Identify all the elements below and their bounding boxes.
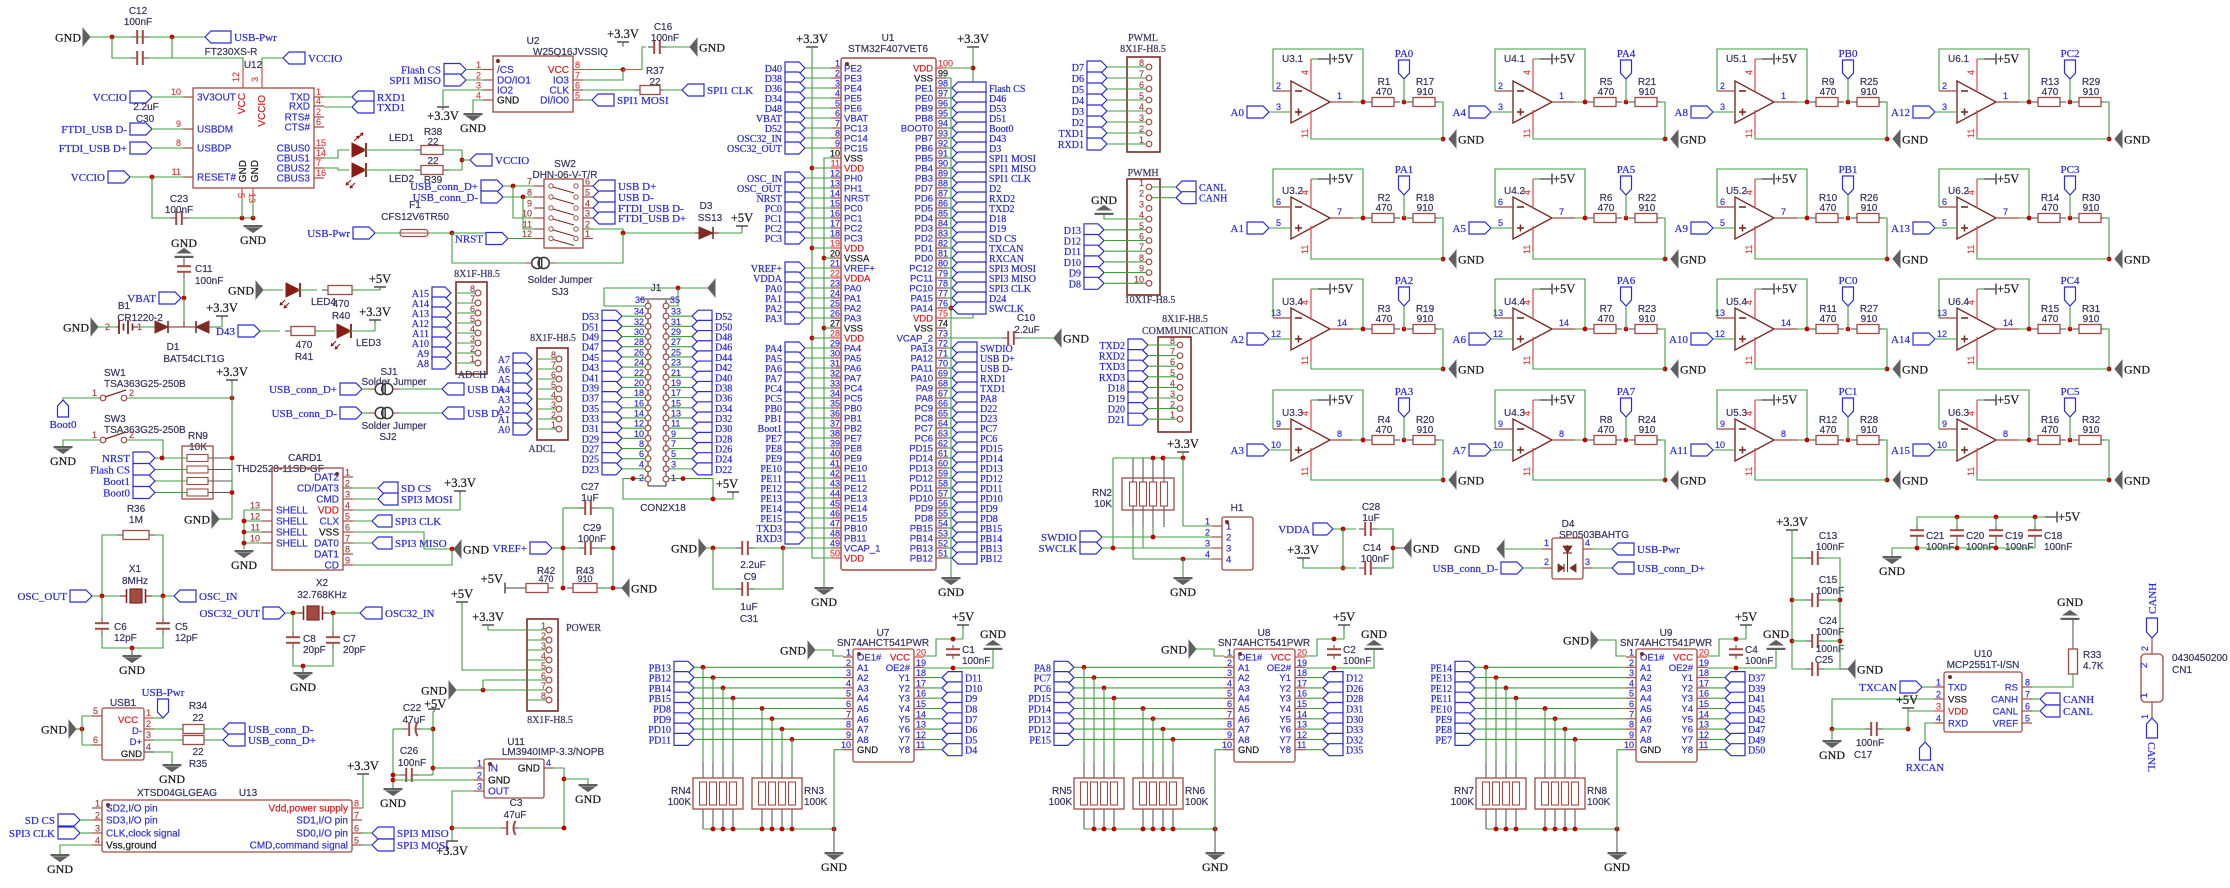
svg-text:3: 3	[551, 400, 556, 410]
label PB13	[952, 542, 977, 554]
svg-text:R33: R33	[2083, 650, 2102, 661]
svg-text:+3.3V: +3.3V	[436, 844, 468, 858]
svg-text:CD/DAT3: CD/DAT3	[297, 484, 339, 495]
svg-text:8: 8	[1629, 720, 1634, 730]
label SD CS	[58, 814, 80, 826]
svg-text:15: 15	[1699, 699, 1709, 709]
wire gnd row	[1977, 362, 2109, 369]
svg-text:51: 51	[938, 549, 948, 559]
label SD CS	[378, 482, 398, 494]
svg-text:46: 46	[830, 509, 840, 519]
power +5V	[1902, 707, 1914, 709]
svg-text:6: 6	[846, 699, 851, 709]
svg-text:GND: GND	[159, 772, 185, 786]
label A3	[513, 393, 532, 405]
ground	[622, 580, 629, 597]
label A0	[513, 423, 532, 435]
svg-text:SJ2: SJ2	[379, 432, 397, 443]
svg-text:A9: A9	[1675, 223, 1689, 235]
svg-text:PC3: PC3	[2061, 164, 2080, 176]
connector CN1 0430450200	[2141, 654, 2163, 702]
svg-text:GND: GND	[1902, 133, 1928, 147]
svg-text:GND: GND	[1063, 332, 1089, 346]
svg-text:1: 1	[476, 60, 481, 70]
svg-text:+5V: +5V	[1775, 393, 1797, 407]
svg-text:19: 19	[671, 378, 681, 388]
wire	[1074, 718, 1224, 720]
svg-text:A10: A10	[1669, 334, 1688, 346]
capacitor C18 100nF	[2034, 526, 2036, 530]
svg-text:+5V: +5V	[369, 272, 391, 286]
svg-text:SW1: SW1	[104, 368, 126, 379]
svg-text:12: 12	[830, 169, 840, 179]
ground	[1449, 472, 1456, 489]
wire gnd row	[1977, 473, 2109, 480]
svg-text:100K: 100K	[1451, 797, 1475, 808]
resistor network RN5 100K	[1074, 778, 1124, 809]
svg-text:100nF: 100nF	[1343, 656, 1371, 667]
svg-text:83: 83	[938, 229, 948, 239]
svg-text:GND: GND	[2124, 133, 2150, 147]
svg-text:+5V: +5V	[1333, 610, 1355, 624]
svg-text:34: 34	[634, 307, 644, 317]
svg-text:40: 40	[830, 449, 840, 459]
label PD15	[952, 442, 977, 454]
svg-text:+3.3V: +3.3V	[359, 305, 391, 319]
ground	[815, 587, 834, 589]
svg-text:67: 67	[938, 389, 948, 399]
wire J1 top	[604, 288, 708, 306]
svg-text:14: 14	[1337, 318, 1347, 328]
label A4	[1469, 106, 1491, 118]
label PE9	[785, 452, 805, 464]
wire	[1925, 723, 1934, 742]
svg-text:C16: C16	[654, 22, 673, 33]
wire	[1133, 558, 1212, 560]
svg-text:FTDI_USB D+: FTDI_USB D+	[618, 213, 686, 225]
svg-text:8: 8	[470, 284, 475, 294]
label D18	[1128, 381, 1148, 393]
svg-text:3: 3	[477, 782, 482, 792]
svg-text:SD0,I/O pin: SD0,I/O pin	[296, 829, 348, 840]
svg-text:17: 17	[916, 678, 926, 688]
wire feedback	[1273, 279, 1363, 329]
svg-text:470: 470	[1598, 314, 1615, 325]
label VREF+	[785, 262, 805, 274]
wire	[2072, 620, 2074, 649]
capacitor C11	[183, 258, 185, 262]
label SPI3 MISO	[372, 827, 394, 839]
svg-text:470: 470	[1820, 87, 1837, 98]
label PC3	[785, 232, 805, 244]
svg-text:100K: 100K	[1185, 797, 1209, 808]
svg-text:C1: C1	[962, 645, 975, 656]
svg-text:C23: C23	[170, 194, 189, 205]
svg-text:72: 72	[938, 339, 948, 349]
svg-text:470: 470	[1598, 87, 1615, 98]
power +5V	[1977, 178, 1988, 180]
wire output	[1996, 101, 2019, 103]
svg-text:GND: GND	[380, 796, 406, 810]
svg-text:3: 3	[95, 824, 100, 834]
svg-text:1: 1	[1936, 678, 1941, 688]
svg-text:Boot0: Boot0	[103, 488, 130, 500]
svg-text:Solder Jumper: Solder Jumper	[527, 275, 593, 286]
wire output	[1774, 101, 1797, 103]
svg-text:U5.1: U5.1	[1726, 54, 1748, 65]
svg-text:1: 1	[1781, 91, 1786, 101]
svg-text:4: 4	[541, 651, 546, 661]
svg-text:Solder Jumper: Solder Jumper	[361, 377, 427, 388]
svg-text:71: 71	[938, 349, 948, 359]
svg-text:GND: GND	[184, 513, 210, 527]
label PD8	[674, 703, 694, 715]
label RXCAN	[1920, 742, 1931, 760]
svg-text:VCCIO: VCCIO	[308, 53, 342, 65]
capacitor C20 100nF	[1956, 526, 1958, 530]
svg-text:4.7K: 4.7K	[2083, 661, 2104, 672]
label SPI1 MISO	[952, 162, 986, 174]
svg-text:15: 15	[316, 138, 326, 148]
svg-text:5: 5	[575, 91, 580, 101]
svg-text:C2: C2	[1343, 645, 1356, 656]
svg-text:79: 79	[938, 269, 948, 279]
wire	[293, 649, 333, 666]
svg-text:GND: GND	[671, 542, 697, 556]
wire	[924, 708, 942, 710]
label D9	[1084, 267, 1104, 279]
label D3	[1087, 105, 1107, 117]
label D42	[1725, 713, 1745, 725]
wire	[2068, 216, 2073, 221]
ground	[1449, 361, 1456, 378]
power +3.3V	[967, 46, 979, 48]
label VREF+	[530, 542, 552, 554]
wire feedback	[1273, 169, 1363, 218]
svg-text:PB1: PB1	[1839, 164, 1858, 176]
svg-text:R35: R35	[189, 759, 208, 770]
svg-text:100K: 100K	[668, 797, 692, 808]
label VCCIO	[130, 91, 152, 103]
wire	[152, 96, 183, 98]
ground	[833, 829, 835, 852]
label PA4	[1621, 60, 1632, 79]
label A10	[1691, 333, 1713, 345]
svg-text:97: 97	[938, 89, 948, 99]
svg-text:RESET#: RESET#	[197, 173, 236, 184]
svg-text:VREF+: VREF+	[493, 543, 527, 555]
label TXD2	[1128, 339, 1148, 351]
label SPI3 CLK	[58, 827, 80, 839]
label D38	[785, 72, 805, 84]
svg-text:/CS: /CS	[497, 65, 514, 76]
svg-text:H1: H1	[1231, 503, 1244, 514]
svg-text:D11: D11	[1064, 247, 1081, 258]
ground	[1054, 330, 1061, 347]
label D36	[692, 392, 712, 404]
label D31	[602, 422, 622, 434]
svg-text:12: 12	[1937, 329, 1947, 339]
wire pin4	[554, 768, 564, 828]
wire VSS	[1832, 699, 1934, 729]
svg-text:CANL: CANL	[1993, 707, 2018, 718]
svg-text:7: 7	[575, 71, 580, 81]
svg-text:TXD1: TXD1	[1058, 129, 1084, 140]
wire	[1305, 738, 1323, 740]
label PA1	[1399, 176, 1410, 195]
svg-text:3: 3	[846, 668, 851, 678]
svg-text:1: 1	[1226, 522, 1231, 533]
svg-text:11: 11	[1744, 356, 1754, 365]
label PE8	[1455, 723, 1475, 735]
svg-text:PB12: PB12	[910, 554, 933, 565]
svg-text:D9: D9	[1069, 269, 1081, 280]
svg-text:SHELL: SHELL	[276, 506, 308, 517]
svg-text:10: 10	[1222, 740, 1232, 750]
label D22	[952, 402, 977, 414]
svg-text:D50: D50	[1748, 746, 1765, 757]
svg-text:7: 7	[470, 294, 475, 304]
svg-text:TSA363G25-250B: TSA363G25-250B	[104, 379, 186, 390]
svg-text:5: 5	[236, 193, 246, 198]
svg-text:910: 910	[1861, 314, 1878, 325]
wire	[183, 321, 185, 327]
svg-text:+5V: +5V	[481, 572, 503, 586]
label PB14	[952, 532, 977, 544]
svg-text:PA1: PA1	[1395, 164, 1414, 176]
svg-text:470: 470	[538, 574, 553, 584]
capacitor C17 100nF	[1865, 728, 1871, 730]
label A12	[1913, 106, 1935, 118]
svg-text:GND: GND	[50, 454, 76, 468]
svg-text:GND: GND	[2124, 253, 2150, 267]
ground	[244, 225, 263, 227]
svg-text:30: 30	[634, 327, 644, 337]
resistor R41	[291, 327, 315, 336]
svg-text:3: 3	[1226, 544, 1231, 555]
svg-text:53: 53	[938, 529, 948, 539]
svg-text:0430450200: 0430450200	[2172, 653, 2228, 664]
svg-text:4: 4	[835, 89, 840, 99]
svg-text:PE7: PE7	[1435, 735, 1452, 746]
power +5V	[1977, 399, 1988, 401]
svg-text:D19: D19	[1108, 394, 1125, 405]
svg-text:910: 910	[2083, 203, 2100, 214]
svg-text:22: 22	[427, 156, 439, 167]
label D32	[692, 412, 712, 424]
svg-text:NRST: NRST	[455, 234, 483, 246]
svg-text:Boot1: Boot1	[103, 476, 130, 488]
svg-text:10: 10	[1271, 440, 1281, 450]
svg-text:4: 4	[1522, 70, 1532, 75]
svg-text:C14: C14	[1363, 543, 1382, 554]
label USB D-	[442, 407, 464, 419]
label PC2	[2065, 60, 2076, 79]
resistor R38	[421, 146, 443, 155]
ground	[699, 540, 706, 557]
label SPI1 CLK	[682, 84, 704, 96]
svg-text:GND: GND	[497, 96, 519, 107]
svg-text:SPI3 CLK: SPI3 CLK	[395, 516, 441, 528]
label D46	[692, 341, 712, 353]
label D46	[952, 92, 986, 104]
svg-text:DAT0: DAT0	[314, 539, 339, 550]
wire	[102, 635, 163, 648]
wire	[694, 697, 843, 699]
svg-text:PB0: PB0	[1839, 48, 1858, 60]
svg-text:1: 1	[1205, 517, 1210, 527]
svg-text:D20: D20	[1108, 405, 1125, 416]
svg-text:+5V: +5V	[731, 211, 753, 225]
svg-text:CANH: CANH	[2147, 583, 2159, 614]
svg-text:75: 75	[938, 309, 948, 319]
wire	[1624, 100, 1629, 105]
label USB D-	[952, 362, 977, 374]
svg-text:74: 74	[938, 319, 948, 329]
svg-text:57: 57	[938, 489, 948, 499]
svg-text:1: 1	[92, 430, 97, 440]
svg-text:4: 4	[1227, 678, 1232, 688]
svg-text:11: 11	[671, 419, 680, 429]
svg-text:18: 18	[1297, 668, 1307, 678]
power +5V	[1755, 399, 1766, 401]
svg-text:VDD: VDD	[1948, 707, 1968, 718]
svg-text:8: 8	[345, 545, 350, 555]
svg-text:6: 6	[354, 824, 359, 834]
wire feedback	[1939, 279, 2029, 329]
svg-text:TSA363G25-250B: TSA363G25-250B	[104, 425, 186, 436]
svg-text:8: 8	[354, 799, 359, 809]
label PA4	[785, 342, 805, 354]
svg-text:17: 17	[1297, 678, 1307, 688]
svg-text:1: 1	[1629, 648, 1634, 658]
svg-text:D4: D4	[1072, 96, 1084, 107]
svg-text:1: 1	[345, 468, 350, 478]
wire	[433, 712, 434, 775]
label USB_conn_D-	[223, 723, 245, 735]
svg-text:14: 14	[1559, 318, 1569, 328]
svg-text:61: 61	[938, 449, 948, 459]
label PA8	[952, 392, 977, 404]
label PE12	[785, 482, 805, 494]
capacitor C23	[170, 217, 176, 219]
label PA6	[1621, 287, 1632, 306]
svg-text:12: 12	[1493, 329, 1503, 339]
svg-text:U13: U13	[239, 788, 258, 799]
label CANH	[2040, 693, 2060, 705]
svg-text:C17: C17	[1854, 750, 1873, 761]
label D37	[1725, 672, 1745, 684]
wire	[393, 774, 400, 776]
svg-text:14: 14	[830, 189, 840, 199]
svg-text:7: 7	[846, 709, 851, 719]
svg-text:54: 54	[938, 519, 948, 529]
label PB12	[952, 552, 977, 564]
svg-text:+5V: +5V	[1997, 393, 2019, 407]
svg-text:14: 14	[916, 709, 926, 719]
wire	[1475, 708, 1626, 710]
label SPI3 CLK	[372, 515, 392, 527]
svg-text:GND: GND	[1680, 363, 1706, 377]
label PD13	[952, 462, 977, 474]
svg-text:RN8: RN8	[1587, 786, 1607, 797]
wire	[597, 587, 613, 589]
svg-text:9: 9	[1629, 730, 1634, 740]
svg-text:U1: U1	[882, 33, 895, 44]
label CANL	[1176, 181, 1196, 193]
svg-text:SW3: SW3	[104, 414, 126, 425]
label PD9	[674, 713, 694, 725]
svg-text:10: 10	[250, 534, 260, 544]
label PD15	[1054, 692, 1074, 704]
label D41	[602, 371, 622, 383]
svg-text:C19: C19	[2005, 531, 2024, 542]
svg-text:19: 19	[916, 658, 926, 668]
wire	[583, 99, 592, 101]
svg-text:GND: GND	[1238, 745, 1259, 756]
svg-text:33: 33	[671, 307, 681, 317]
svg-text:98: 98	[938, 79, 948, 89]
svg-text:FT230XS-R: FT230XS-R	[205, 47, 258, 58]
wire	[1402, 438, 1407, 443]
svg-text:PC1: PC1	[1839, 386, 1858, 398]
svg-text:OSC32_IN: OSC32_IN	[385, 608, 435, 620]
svg-text:USB-Pwr: USB-Pwr	[142, 687, 185, 699]
svg-text:C12: C12	[129, 6, 148, 17]
svg-text:+3.3V: +3.3V	[472, 610, 504, 624]
wire	[1846, 216, 1851, 221]
svg-text:4: 4	[1744, 190, 1754, 195]
svg-text:470: 470	[1376, 87, 1393, 98]
label D5	[1087, 83, 1107, 95]
svg-text:THD2528-11SD-GF: THD2528-11SD-GF	[236, 464, 324, 475]
svg-text:GND: GND	[1458, 253, 1484, 267]
svg-text:4: 4	[1585, 538, 1590, 548]
label PC5	[2065, 398, 2076, 417]
svg-text:90: 90	[938, 159, 948, 169]
svg-text:COMMUNICATION: COMMUNICATION	[1142, 326, 1228, 337]
svg-text:11: 11	[1297, 740, 1306, 750]
svg-text:9: 9	[1227, 730, 1232, 740]
svg-text:89: 89	[938, 169, 948, 179]
wire	[462, 602, 527, 670]
svg-text:4: 4	[585, 199, 590, 209]
label PD10	[952, 492, 977, 504]
label USB_conn_D+	[340, 383, 362, 395]
svg-text:A6: A6	[1453, 334, 1467, 346]
ground	[1823, 740, 1842, 742]
svg-text:87: 87	[938, 189, 948, 199]
wire	[466, 69, 483, 71]
ground	[1189, 641, 1196, 658]
wire	[1707, 687, 1725, 689]
svg-text:FTDI_USB D+: FTDI_USB D+	[59, 143, 127, 155]
svg-text:4: 4	[1522, 190, 1532, 195]
label A13	[432, 307, 451, 319]
wire	[561, 586, 566, 591]
capacitor C12	[131, 36, 137, 38]
svg-text:4: 4	[345, 501, 350, 511]
label D24	[952, 292, 986, 304]
wire feedback	[1939, 49, 2029, 102]
label Boot1	[785, 422, 805, 434]
svg-text:10: 10	[1493, 440, 1503, 450]
wire	[297, 289, 317, 291]
label PE12	[1455, 682, 1475, 694]
svg-text:C11: C11	[195, 264, 213, 275]
label USB_conn_D-	[481, 191, 503, 203]
svg-text:9: 9	[1942, 419, 1947, 429]
